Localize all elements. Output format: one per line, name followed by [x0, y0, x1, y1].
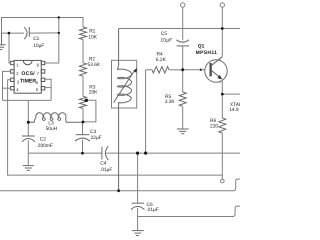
svg-text:.01µF: .01µF — [100, 167, 113, 173]
svg-text:10µF: 10µF — [33, 43, 44, 49]
wire C1 to pin8 riser — [29, 32, 59, 34]
svg-text:L3: L3 — [48, 121, 54, 127]
svg-text:C3: C3 — [90, 129, 96, 135]
resistor R3 — [80, 96, 87, 108]
wire R3 bypass tap — [83, 100, 96, 122]
Q1 emitter — [212, 71, 222, 79]
ground G1 — [0, 33, 6, 50]
wire R2-R3 — [82, 76, 84, 96]
svg-text:R6: R6 — [210, 118, 216, 124]
transistor Q1 — [205, 60, 227, 82]
wire pin2 — [3, 71, 11, 100]
wire C1 node — [2, 32, 25, 34]
wire bottom rail 2 — [138, 206, 240, 216]
node node C2/L3 — [27, 121, 30, 124]
svg-text:.01µF: .01µF — [160, 37, 173, 43]
svg-text:TIMER: TIMER — [20, 79, 36, 85]
svg-text:R2: R2 — [89, 57, 95, 63]
svg-text:14.9: 14.9 — [229, 107, 239, 113]
svg-text:200mF: 200mF — [38, 143, 53, 149]
wire R6 down — [221, 133, 223, 179]
resistor R1 — [80, 27, 87, 40]
svg-text:C4: C4 — [100, 161, 106, 167]
node node C3 bottom rail — [81, 152, 84, 155]
svg-text:C5: C5 — [161, 31, 167, 37]
wire pin3 — [8, 80, 223, 175]
Q1 base bar — [210, 63, 212, 76]
U1 pin stubs — [11, 61, 45, 90]
capacitor C6 — [131, 203, 144, 209]
wire C6 to ground — [137, 208, 139, 230]
wire R1-R2 — [82, 40, 84, 63]
wire C3 top — [82, 122, 84, 135]
node node emitter XTAL — [221, 93, 224, 96]
IC U1 oscillator/timer body — [14, 60, 41, 93]
node node R3 bottom — [82, 121, 85, 124]
svg-text:C1: C1 — [33, 36, 39, 42]
node node R4/C5/base — [181, 68, 184, 71]
node node C1 right / pin8 — [58, 32, 60, 34]
wire C2 to ground — [27, 140, 29, 165]
terminal T2 — [220, 3, 224, 7]
wire collector riser — [221, 29, 223, 57]
ground G3 — [177, 129, 189, 134]
svg-text:220: 220 — [210, 123, 218, 129]
svg-text:C6: C6 — [147, 202, 153, 208]
svg-text:MPSH11: MPSH11 — [196, 50, 218, 56]
resistor R5 — [179, 92, 186, 106]
wire R4 left — [146, 69, 152, 71]
node node C1 left — [8, 32, 11, 35]
wire mid rail right — [106, 152, 240, 154]
wire pin1 — [9, 33, 11, 63]
wire pin4 — [3, 87, 11, 89]
inductor L1 coil — [118, 29, 132, 191]
wire C3 bottom — [82, 140, 84, 154]
wire bottom rail — [0, 179, 240, 191]
wire R4 right — [169, 69, 183, 71]
inductor L3 — [28, 113, 83, 123]
Q1 collector — [212, 57, 223, 65]
wire IC node to L3/C2 node — [27, 100, 29, 135]
L1 arrow — [114, 71, 135, 103]
svg-text:R4: R4 — [157, 51, 163, 57]
ground G2 — [23, 166, 34, 171]
wire mid rail left — [28, 152, 102, 154]
wire top rail — [2, 18, 84, 45]
capacitor C3 — [75, 135, 90, 142]
wire emitter down — [221, 79, 223, 118]
resistor R6 — [219, 118, 226, 133]
wire pin5 — [45, 87, 51, 89]
wire R3 bottom — [82, 108, 84, 122]
terminal T3 — [221, 179, 225, 183]
wire C6 vertical — [137, 153, 139, 203]
wire rail y28.5 — [119, 28, 240, 30]
resistor R4 — [152, 67, 169, 73]
resistor R2 — [80, 63, 87, 76]
capacitor C4 — [102, 146, 108, 160]
terminal T1 — [181, 3, 185, 7]
wire R5 to ground — [182, 106, 184, 129]
node node top rail / pin8 riser — [58, 16, 60, 18]
node node R4 rail — [144, 152, 147, 155]
wire R4 vertical — [145, 70, 147, 153]
svg-text:Q1: Q1 — [198, 44, 205, 50]
wire pins 2-4-5-6 rail — [3, 99, 52, 101]
svg-text:20K: 20K — [89, 89, 98, 95]
inductor L1 box — [112, 60, 137, 108]
svg-text:50uH: 50uH — [46, 126, 58, 132]
wire node to R5 — [182, 70, 184, 92]
wire C5 to node — [182, 46, 184, 70]
node node rail y28.5 collector — [221, 27, 224, 30]
svg-text:R1: R1 — [89, 28, 95, 34]
svg-text:6.2K: 6.2K — [156, 57, 167, 63]
svg-text:22µF: 22µF — [91, 135, 102, 141]
node node C6 rail — [136, 152, 139, 155]
capacitor C2 — [22, 136, 35, 142]
svg-text:53.6K: 53.6K — [88, 62, 101, 68]
svg-text:.01µF: .01µF — [146, 207, 159, 213]
wire T1 down — [182, 7, 184, 40]
svg-text:C2: C2 — [40, 136, 46, 142]
svg-text:10K: 10K — [88, 34, 97, 40]
svg-text:3.3K: 3.3K — [165, 99, 176, 105]
ground G4 — [132, 231, 144, 236]
svg-text:OCS/: OCS/ — [21, 71, 35, 77]
wire pin6 — [45, 79, 51, 100]
wire XTAL — [222, 93, 240, 95]
node node bottom rail — [117, 189, 120, 192]
wire pin8 riser — [45, 18, 59, 64]
capacitor C5 — [176, 40, 189, 46]
node node R3 tap — [85, 99, 88, 102]
capacitor C1 — [24, 27, 29, 39]
Q1 base wire — [183, 69, 205, 71]
svg-text:XTAL: XTAL — [230, 102, 240, 108]
wire T2 down — [221, 7, 223, 28]
